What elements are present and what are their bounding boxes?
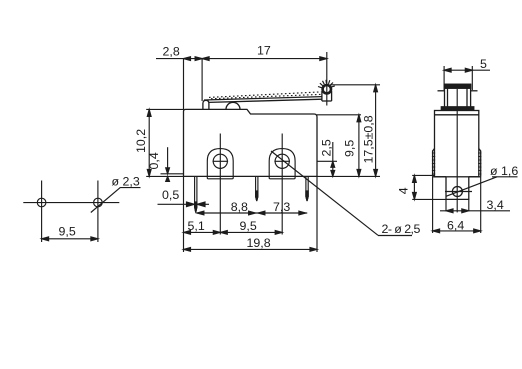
- svg-text:3,4: 3,4: [487, 198, 504, 212]
- svg-text:6,4: 6,4: [447, 219, 464, 233]
- svg-text:5,1: 5,1: [188, 219, 205, 233]
- svg-text:9,5: 9,5: [59, 225, 76, 239]
- svg-text:4: 4: [397, 187, 411, 194]
- svg-text:9,5: 9,5: [240, 219, 257, 233]
- svg-text:9,5: 9,5: [343, 140, 357, 157]
- svg-text:10,2: 10,2: [134, 129, 148, 153]
- svg-text:19,8: 19,8: [247, 236, 271, 250]
- svg-text:ø 2,3: ø 2,3: [112, 175, 140, 189]
- svg-text:5: 5: [480, 57, 487, 71]
- svg-text:0,5: 0,5: [162, 188, 179, 202]
- svg-text:0,4: 0,4: [147, 152, 161, 169]
- svg-text:17: 17: [257, 44, 271, 58]
- svg-text:2,8: 2,8: [163, 45, 180, 59]
- svg-text:7,3: 7,3: [273, 200, 290, 214]
- svg-text:17,5±0,8: 17,5±0,8: [362, 115, 376, 163]
- svg-text:2,5: 2,5: [320, 139, 334, 156]
- svg-text:ø 1,6: ø 1,6: [490, 164, 518, 178]
- svg-text:8,8: 8,8: [231, 200, 248, 214]
- svg-text:2- ø 2,5: 2- ø 2,5: [382, 222, 421, 236]
